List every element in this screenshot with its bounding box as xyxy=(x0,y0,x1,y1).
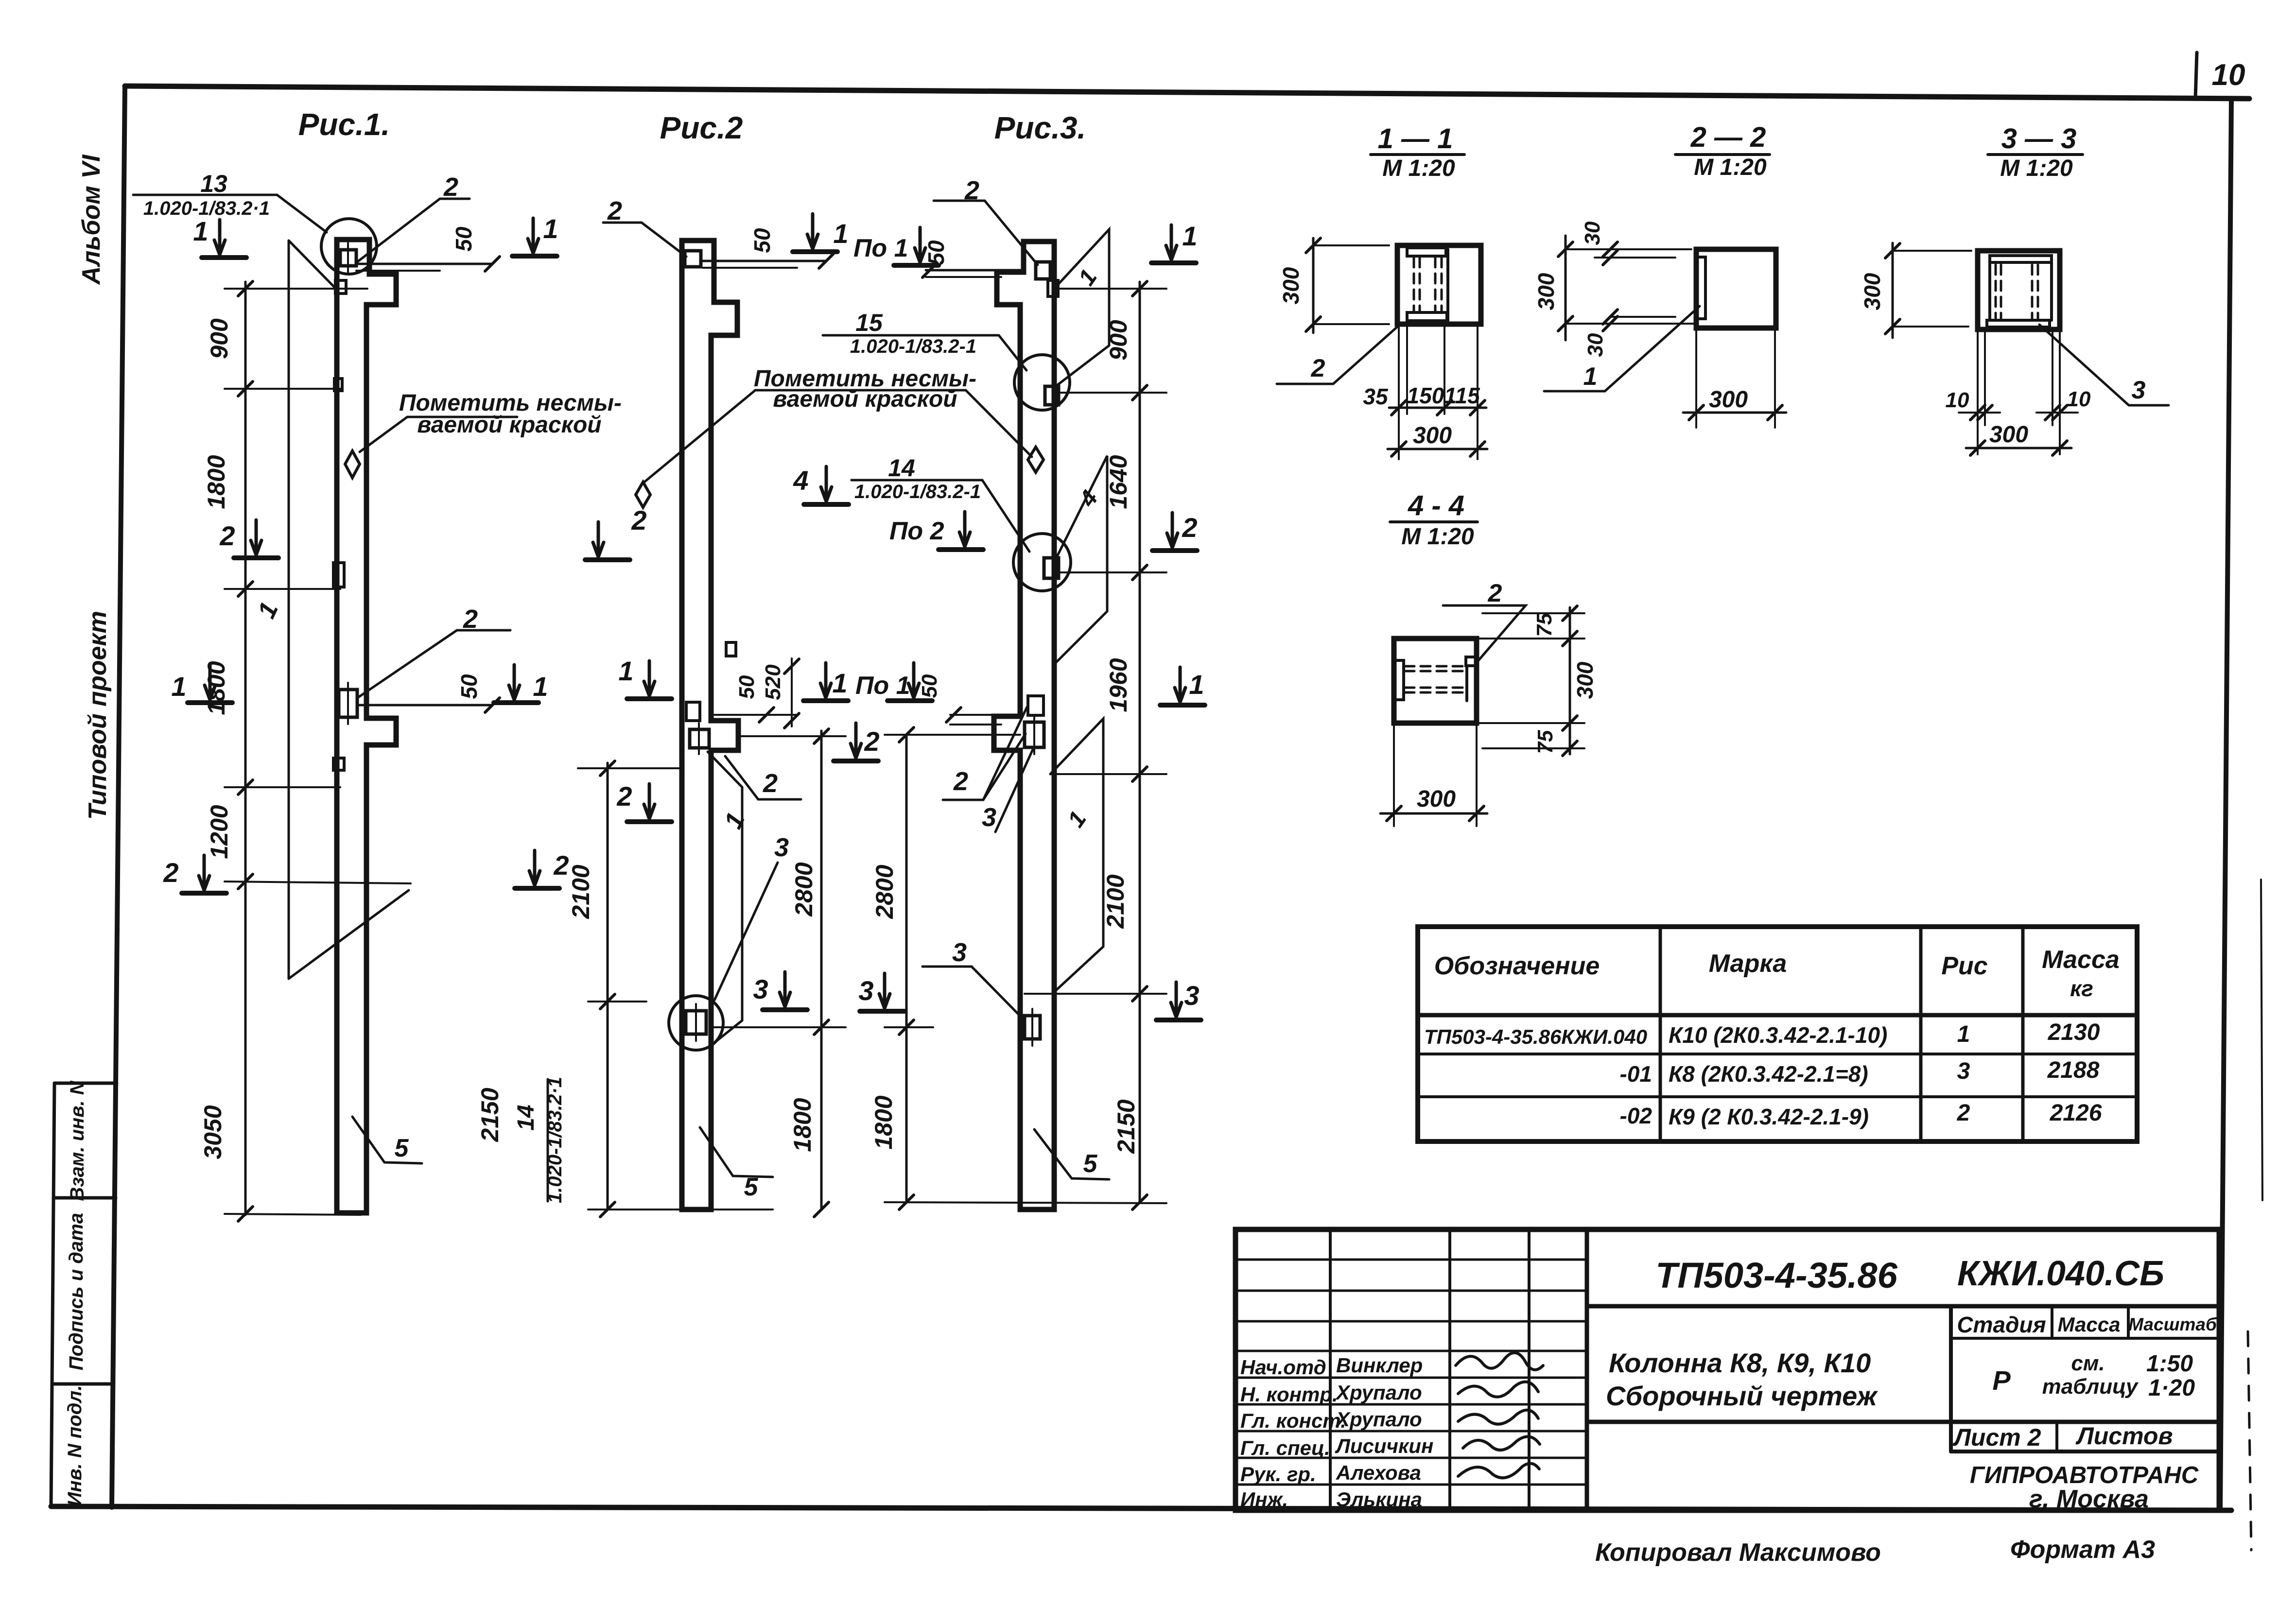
small plate y1565 xyxy=(333,758,344,770)
svg-text:Н. контр.: Н. контр. xyxy=(1240,1383,1338,1406)
svg-text:Формат А3: Формат А3 xyxy=(2010,1536,2155,1564)
section 1-1 body xyxy=(1397,245,1481,324)
leader 5 (Рис.2) xyxy=(700,1127,773,1177)
bottom tick line (Рис.3) xyxy=(885,1202,1166,1203)
svg-text:1 — 1: 1 — 1 xyxy=(1378,123,1453,155)
svg-text:М 1:20: М 1:20 xyxy=(1694,155,1767,180)
leader 5 (Рис.1) xyxy=(352,1117,422,1163)
tick line y1814 xyxy=(225,881,411,883)
svg-text:1640: 1640 xyxy=(1105,455,1132,509)
svg-text:Хрупало: Хрупало xyxy=(1335,1408,1422,1431)
svg-text:Типовой проект: Типовой проект xyxy=(84,611,112,820)
dim 300 left (1-1) xyxy=(1312,238,1315,333)
svg-text:75: 75 xyxy=(1533,730,1557,754)
section mark 1 right mid (Рис.2) xyxy=(820,663,831,698)
svg-text:3: 3 xyxy=(858,975,873,1006)
svg-text:Обозначение: Обозначение xyxy=(1434,952,1600,980)
svg-text:300: 300 xyxy=(1572,661,1598,699)
extension lines below (1-1) xyxy=(1398,324,1400,459)
svg-text:Лисичкин: Лисичкин xyxy=(1335,1434,1433,1457)
svg-text:М 1:20: М 1:20 xyxy=(2000,156,2073,181)
detail circle 1 (Рис.3) xyxy=(1014,355,1070,410)
svg-text:3050: 3050 xyxy=(199,1105,226,1159)
dim 10 10 (3-3) xyxy=(1959,412,2000,414)
svg-text:14: 14 xyxy=(888,454,915,482)
svg-text:Лист 2: Лист 2 xyxy=(1953,1424,2041,1451)
svg-text:3: 3 xyxy=(1184,980,1199,1011)
leader 1 line (Рис.1) xyxy=(288,241,290,979)
svg-text:Рук. гр.: Рук. гр. xyxy=(1240,1463,1316,1486)
section 3-3 body xyxy=(1978,251,2060,329)
column K10 body (Рис.1) xyxy=(337,240,396,1213)
margin box divider 1 xyxy=(53,1196,116,1200)
svg-text:1960: 1960 xyxy=(1105,658,1132,712)
svg-text:2: 2 xyxy=(163,857,178,888)
svg-text:900: 900 xyxy=(206,318,233,359)
svg-text:ТП503-4-35.86: ТП503-4-35.86 xyxy=(1655,1255,1897,1296)
svg-text:2: 2 xyxy=(607,196,622,225)
svg-text:г. Москва: г. Москва xyxy=(2029,1485,2149,1513)
svg-text:-01: -01 xyxy=(1620,1061,1652,1087)
svg-text:10: 10 xyxy=(1946,388,1969,412)
leader 3 (3-3) xyxy=(2039,325,2169,405)
svg-text:Гл. спец.: Гл. спец. xyxy=(1240,1436,1330,1459)
svg-text:300: 300 xyxy=(1533,273,1559,310)
scan artifact dashes right xyxy=(2261,880,2262,1200)
svg-text:1800: 1800 xyxy=(203,455,230,509)
svg-text:75: 75 xyxy=(1532,613,1556,637)
svg-text:1.020-1/83.2-1: 1.020-1/83.2-1 xyxy=(850,336,976,357)
dim 300 bottom (2-2) xyxy=(1683,412,1786,414)
extension lines below (3-3) xyxy=(1977,329,1979,454)
svg-text:2130: 2130 xyxy=(2048,1019,2100,1045)
section mark 3 right low (Рис.3) xyxy=(1171,982,1182,1017)
svg-text:50: 50 xyxy=(918,674,941,698)
svg-text:Масса: Масса xyxy=(2058,1313,2121,1336)
svg-text:1800: 1800 xyxy=(870,1095,897,1149)
embed plate 2 top (Рис.3) xyxy=(1036,262,1050,279)
svg-text:М 1:20: М 1:20 xyxy=(1382,156,1455,181)
svg-text:1: 1 xyxy=(193,216,208,246)
svg-text:50: 50 xyxy=(749,228,775,253)
svg-text:1: 1 xyxy=(533,671,548,702)
svg-text:5: 5 xyxy=(395,1134,409,1162)
svg-text:ГИПРОАВТОТРАНС: ГИПРОАВТОТРАНС xyxy=(1970,1462,2199,1488)
svg-text:1200: 1200 xyxy=(206,805,233,859)
svg-text:1: 1 xyxy=(1189,669,1204,700)
dim chain Рис.1 xyxy=(244,282,247,1215)
svg-text:К9 (2 К0.3.42-2.1-9): К9 (2 К0.3.42-2.1-9) xyxy=(1669,1104,1869,1129)
section mark 1 right mid (Рис.3) xyxy=(1175,667,1185,702)
svg-text:Колонна К8, К9, К10: Колонна К8, К9, К10 xyxy=(1609,1348,1871,1378)
dim 75 300 75 right (4-4) xyxy=(1569,607,1571,754)
svg-text:10: 10 xyxy=(2067,387,2091,411)
svg-text:Элькина: Элькина xyxy=(1336,1488,1422,1511)
svg-text:4: 4 xyxy=(793,465,808,496)
svg-text:14: 14 xyxy=(513,1105,539,1130)
svg-text:Стадия: Стадия xyxy=(1957,1312,2046,1337)
svg-text:520: 520 xyxy=(761,664,785,700)
svg-text:Инж.: Инж. xyxy=(1240,1488,1288,1511)
svg-text:13: 13 xyxy=(200,170,227,197)
svg-text:2: 2 xyxy=(553,850,569,881)
svg-text:3: 3 xyxy=(753,974,768,1004)
right dim chain (Рис.3) xyxy=(1139,282,1141,1202)
frame bottom border xyxy=(51,1506,2231,1510)
svg-text:2: 2 xyxy=(219,520,235,551)
svg-text:2: 2 xyxy=(763,769,778,798)
flag callout 1 top (Рис.3) xyxy=(1054,229,1109,386)
svg-text:Альбом VI: Альбом VI xyxy=(77,154,105,285)
svg-text:2150: 2150 xyxy=(476,1088,504,1142)
bottom tick line (Рис.2) xyxy=(588,1209,773,1210)
svg-text:По 2: По 2 xyxy=(889,517,944,545)
frame top border xyxy=(125,86,2249,99)
svg-text:Алехова: Алехова xyxy=(1336,1461,1421,1484)
svg-text:2100: 2100 xyxy=(567,864,594,919)
svg-text:ТП503-4-35.86КЖИ.040: ТП503-4-35.86КЖИ.040 xyxy=(1424,1025,1647,1048)
svg-text:115: 115 xyxy=(1444,383,1480,408)
section mark 1 right top (Рис.3) xyxy=(1166,225,1177,260)
leader 5 (Рис.3) xyxy=(1034,1129,1109,1179)
svg-text:2: 2 xyxy=(864,726,879,757)
small plate below (Рис.3) xyxy=(1048,280,1058,296)
svg-text:2: 2 xyxy=(443,173,458,202)
svg-text:Взам. инв. N: Взам. инв. N xyxy=(67,1080,88,1201)
dim 50 console (Рис.2) xyxy=(714,714,797,716)
svg-text:50: 50 xyxy=(735,675,759,699)
dim 300 bottom (3-3) xyxy=(1966,447,2071,449)
svg-text:4 - 4: 4 - 4 xyxy=(1408,490,1464,521)
dim 50 top (Рис.1) xyxy=(356,263,492,265)
svg-text:1: 1 xyxy=(171,671,186,702)
small plate y800 xyxy=(334,379,342,391)
column K9 body (Рис.2) xyxy=(682,241,738,1210)
paint diamond (Рис.1) xyxy=(345,451,360,478)
svg-text:2: 2 xyxy=(631,505,646,536)
svg-text:5: 5 xyxy=(744,1173,759,1201)
tick line y594 xyxy=(225,288,367,290)
svg-text:10: 10 xyxy=(2212,58,2245,92)
svg-text:1: 1 xyxy=(1957,1021,1970,1047)
svg-text:1: 1 xyxy=(543,213,558,244)
margin box divider top xyxy=(54,1082,117,1085)
svg-text:300: 300 xyxy=(1989,422,2028,448)
svg-text:1: 1 xyxy=(1182,221,1197,251)
svg-text:300: 300 xyxy=(1709,387,1748,413)
right dim chain (Рис.2) xyxy=(820,731,823,1210)
section mark 2 right console (Рис.2) xyxy=(851,723,861,758)
svg-text:2126: 2126 xyxy=(2050,1100,2102,1126)
svg-text:50: 50 xyxy=(451,226,476,252)
svg-text:см.: см. xyxy=(2071,1351,2105,1375)
flag callout (Рис.2) xyxy=(708,752,742,787)
svg-text:2: 2 xyxy=(1311,354,1325,382)
svg-text:1: 1 xyxy=(1583,363,1598,391)
dim 300 bottom (4-4) xyxy=(1380,812,1487,815)
svg-text:Винклер: Винклер xyxy=(1336,1354,1423,1377)
dim 50 mid (Рис.3) xyxy=(950,714,1020,716)
detail circle top (Рис.1) xyxy=(321,219,377,274)
left dim chain (Рис.3) xyxy=(905,735,908,1202)
svg-text:2: 2 xyxy=(1488,579,1502,607)
tick line y1620 xyxy=(225,786,340,788)
svg-text:Гл. конст.: Гл. конст. xyxy=(1240,1409,1346,1432)
svg-text:Рис.1.: Рис.1. xyxy=(298,107,390,142)
svg-text:Масштаб: Масштаб xyxy=(2128,1314,2217,1334)
dim 300 left (3-3) xyxy=(1892,243,1894,338)
svg-text:1:50: 1:50 xyxy=(2146,1351,2193,1377)
signature grid verticals xyxy=(1329,1229,1332,1510)
svg-text:Марка: Марка xyxy=(1709,950,1787,978)
table frame xyxy=(1418,927,2137,1141)
svg-text:Сборочный чертеж: Сборочный чертеж xyxy=(1606,1381,1878,1411)
tick line y800 xyxy=(225,388,340,390)
svg-text:2: 2 xyxy=(1957,1100,1970,1126)
detail circle bottom (Рис.2) xyxy=(669,996,723,1050)
section mark 2 right (Рис.3) xyxy=(1167,513,1178,548)
svg-text:50: 50 xyxy=(456,674,482,699)
svg-text:Подпись и дата: Подпись и дата xyxy=(66,1213,87,1370)
dim 50 top (Рис.2) xyxy=(703,260,826,262)
svg-text:3: 3 xyxy=(1957,1058,1970,1084)
title block frame xyxy=(1235,1229,2219,1510)
detail circle 2 (Рис.3) xyxy=(1013,534,1071,591)
dim 50 mid (Рис.1) xyxy=(357,704,492,707)
extension lines below (2-2) xyxy=(1695,328,1697,428)
section mark 1 right top (Рис.1) xyxy=(528,218,539,253)
svg-text:3: 3 xyxy=(774,833,789,862)
tick line y1212 xyxy=(225,588,340,590)
margin boxes left edge xyxy=(51,1083,54,1506)
svg-text:Копировал Максимово: Копировал Максимово xyxy=(1595,1538,1881,1567)
svg-text:900: 900 xyxy=(1105,320,1132,361)
svg-text:Рис.3.: Рис.3. xyxy=(994,110,1086,145)
svg-text:2800: 2800 xyxy=(790,862,818,916)
frame right border xyxy=(2220,99,2231,1510)
svg-text:2150: 2150 xyxy=(1113,1099,1140,1154)
embed plates mid (Рис.3) xyxy=(1028,696,1044,715)
small plate below top xyxy=(335,280,346,294)
svg-text:3 — 3: 3 — 3 xyxy=(2001,123,2077,155)
svg-text:Листов: Листов xyxy=(2075,1422,2173,1450)
svg-text:3: 3 xyxy=(982,803,996,832)
section mark 2 right (Рис.1) xyxy=(593,522,604,557)
svg-text:300: 300 xyxy=(1417,786,1456,812)
svg-text:Инв. N подл.: Инв. N подл. xyxy=(64,1385,86,1506)
svg-text:2: 2 xyxy=(1182,512,1197,543)
embed plate low (Рис.3) xyxy=(1025,1016,1040,1039)
svg-text:50: 50 xyxy=(923,240,949,265)
section mark 1 right top (Рис.2) xyxy=(807,214,818,249)
svg-text:1: 1 xyxy=(618,656,633,686)
svg-text:2100: 2100 xyxy=(1102,874,1129,929)
svg-text:Р: Р xyxy=(1992,1365,2011,1396)
svg-text:К8 (2К0.3.42-2.1=8): К8 (2К0.3.42-2.1=8) xyxy=(1669,1061,1868,1087)
svg-text:1.020-1/83.2-1: 1.020-1/83.2-1 xyxy=(854,481,981,502)
paint diamond (Рис.3) xyxy=(1028,447,1044,472)
embed plate 2 top (Рис.2) xyxy=(685,251,701,267)
svg-text:5: 5 xyxy=(1083,1150,1098,1178)
left dim chain (Рис.2) xyxy=(607,763,609,1210)
tick line y2496 xyxy=(225,1214,361,1215)
svg-text:Хрупало: Хрупало xyxy=(1335,1381,1422,1404)
title block inner lines xyxy=(1587,1304,2219,1309)
svg-text:300: 300 xyxy=(1278,267,1304,304)
svg-text:таблицу: таблицу xyxy=(2042,1375,2139,1399)
svg-text:-02: -02 xyxy=(1620,1103,1652,1128)
svg-text:2: 2 xyxy=(953,767,968,796)
embed plate in circle (Рис.2) xyxy=(686,1011,706,1034)
embed plate 2 top (Рис.1) xyxy=(340,250,356,266)
svg-text:3: 3 xyxy=(952,938,967,967)
dim 520 console (Рис.2) xyxy=(791,658,793,726)
svg-text:30: 30 xyxy=(1581,221,1604,245)
svg-text:15: 15 xyxy=(855,309,883,336)
page number tick xyxy=(2195,52,2197,98)
svg-text:2188: 2188 xyxy=(2047,1057,2100,1083)
flag callout 4 (Рис.3) xyxy=(1054,456,1107,664)
svg-text:К10 (2К0.3.42-2.1-10): К10 (2К0.3.42-2.1-10) xyxy=(1669,1022,1887,1048)
embed plates mid (Рис.2) xyxy=(686,702,700,721)
svg-text:1: 1 xyxy=(833,218,848,249)
svg-text:1800: 1800 xyxy=(789,1098,816,1152)
paint diamond (Рис.2) xyxy=(636,482,650,507)
margin box divider 2 xyxy=(52,1382,114,1386)
section 4-4 body xyxy=(1394,639,1477,723)
svg-text:М 1:20: М 1:20 xyxy=(1401,524,1474,550)
svg-text:150: 150 xyxy=(1407,383,1444,408)
column K8 body (Рис.3) xyxy=(994,242,1054,1210)
section 2-2 body xyxy=(1696,249,1776,328)
svg-text:300: 300 xyxy=(1413,423,1452,449)
svg-text:2 — 2: 2 — 2 xyxy=(1690,121,1766,153)
dim 300 left (2-2) xyxy=(1565,236,1567,340)
extension lines below (4-4) xyxy=(1393,723,1395,826)
signature squiggles xyxy=(1456,1353,1543,1370)
svg-text:3: 3 xyxy=(2132,376,2146,404)
svg-text:кг: кг xyxy=(2070,976,2093,1001)
frame left border xyxy=(112,86,125,1507)
svg-text:Масса: Масса xyxy=(2042,946,2120,974)
section mark 2 right low (Рис.1) xyxy=(529,850,540,885)
svg-text:КЖИ.040.СБ: КЖИ.040.СБ xyxy=(1957,1254,2164,1293)
embed plate 2 mid (Рис.1) xyxy=(339,690,357,717)
svg-text:По 1: По 1 xyxy=(855,672,910,700)
svg-text:1: 1 xyxy=(832,668,847,698)
dim 50 top (Рис.3) xyxy=(926,269,1021,272)
svg-text:1·20: 1·20 xyxy=(2148,1375,2195,1401)
dim 35 150 115 (1-1) xyxy=(1389,407,1486,409)
svg-text:35: 35 xyxy=(1363,384,1389,409)
svg-text:Нач.отд: Нач.отд xyxy=(1240,1356,1326,1379)
svg-text:1.020-1/83.2·1: 1.020-1/83.2·1 xyxy=(544,1077,566,1203)
svg-text:30: 30 xyxy=(1583,333,1607,357)
svg-text:300: 300 xyxy=(1860,273,1885,310)
svg-text:По 1: По 1 xyxy=(853,234,908,262)
section mark 1 right mid (Рис.1) xyxy=(509,665,520,700)
small plate y1180 xyxy=(333,563,344,587)
svg-text:Рис.2: Рис.2 xyxy=(660,110,743,145)
svg-text:2800: 2800 xyxy=(871,864,898,919)
dim 300 bottom (1-1) xyxy=(1388,448,1487,450)
signature grid horizontals xyxy=(1235,1259,1587,1261)
svg-text:2: 2 xyxy=(616,781,632,812)
svg-text:Рис: Рис xyxy=(1941,952,1987,980)
flag callout 1 lower (Рис.3) xyxy=(1050,719,1103,994)
